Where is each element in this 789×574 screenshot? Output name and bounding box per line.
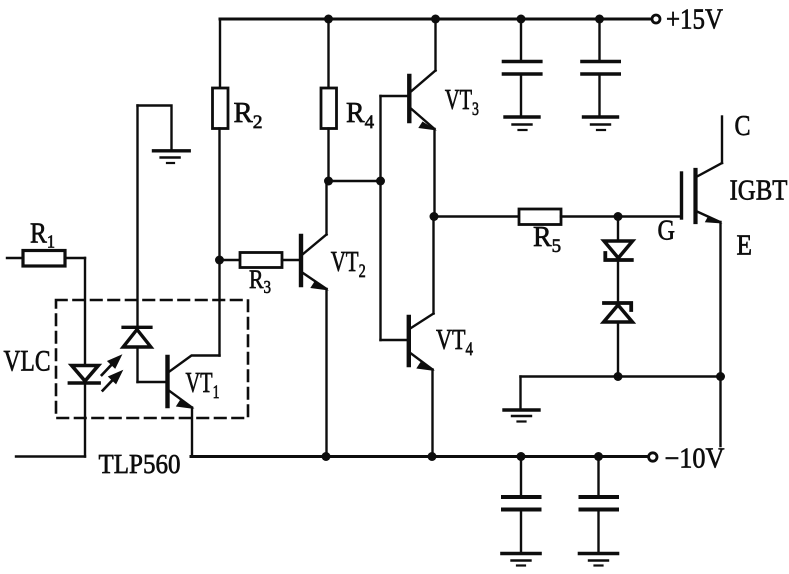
wire VT4 emitter to -10V rail	[431, 370, 433, 457]
label C	[735, 111, 751, 142]
node dot top rail at C1	[517, 15, 526, 24]
svg-text:VT1: VT1	[186, 368, 220, 403]
ground mid right	[504, 410, 539, 422]
node dot top rail at R4	[324, 15, 333, 24]
ground top middle	[154, 151, 190, 163]
node dot R4 bottom	[324, 177, 333, 186]
label VT2	[331, 247, 366, 282]
label VT4	[436, 325, 473, 360]
light arrow 1	[102, 354, 123, 375]
wire -10V bottom rail	[191, 455, 647, 458]
svg-text:TLP560: TLP560	[99, 449, 181, 479]
node dot base column	[376, 177, 385, 186]
node dot top rail at VT3 collector	[431, 15, 440, 24]
wire LED cathode to input return	[16, 455, 85, 457]
terminal -10V circle	[649, 453, 657, 461]
capacitor C4	[581, 457, 618, 552]
label -10V	[665, 444, 725, 475]
wire VT1 collector to node A	[218, 260, 220, 356]
phototransistor VT1	[138, 356, 220, 457]
label IGBT	[730, 176, 788, 207]
label E	[737, 231, 753, 262]
label R3	[249, 265, 271, 297]
svg-text:−10V: −10V	[665, 444, 725, 475]
svg-text:VT3: VT3	[445, 85, 479, 120]
capacitor C1	[504, 19, 541, 116]
svg-text:R5: R5	[533, 222, 561, 257]
svg-text:R3: R3	[249, 265, 271, 297]
label G	[658, 216, 676, 247]
wire IGBT collector C	[721, 117, 723, 164]
resistor R1	[7, 251, 85, 267]
label VLC	[4, 345, 51, 378]
ground under C1	[505, 117, 539, 130]
ground under C3	[502, 554, 540, 566]
ground under C4	[580, 554, 618, 566]
wire VT3 emitter to node B	[433, 129, 435, 217]
svg-text:G: G	[658, 216, 676, 247]
node dot rail C4	[594, 452, 603, 461]
resistor R4	[321, 19, 337, 181]
node dot top rail at C2	[595, 15, 604, 24]
wire VT2 emitter to -10V rail	[325, 289, 327, 457]
node B dot	[430, 212, 439, 221]
wire D1 top to ground	[138, 106, 172, 150]
resistor R2	[213, 19, 229, 260]
IGBT symbol	[682, 163, 723, 224]
wire VT3 collector to +15V	[434, 19, 436, 71]
wire +15V top rail	[220, 18, 651, 21]
terminal +15V circle	[652, 15, 660, 23]
label R5	[533, 222, 561, 257]
diode D1 in optocoupler	[123, 106, 151, 383]
transistor VT4	[409, 314, 435, 372]
node A dot R2/R3/VT1	[215, 256, 224, 265]
node dot rail VT4	[428, 452, 437, 461]
wire VT4 collector to node B	[432, 217, 434, 314]
svg-text:+15V: +15V	[666, 5, 723, 36]
label R4	[346, 98, 374, 133]
svg-text:VT2: VT2	[331, 247, 366, 282]
resistor R5	[434, 209, 680, 225]
wire base column VT3/VT4	[379, 96, 381, 340]
label TLP560	[99, 449, 181, 479]
zener diode VS1	[604, 217, 633, 302]
wire R1 to LED anode	[84, 258, 86, 366]
LED in optocoupler	[69, 366, 99, 457]
wire zener node to ground and emitter	[521, 377, 721, 409]
svg-text:E: E	[737, 231, 753, 262]
node dot rail C3	[517, 452, 526, 461]
wire to VT4 base	[381, 339, 407, 341]
label +15V	[666, 5, 723, 36]
ground under C2	[584, 117, 618, 130]
svg-text:R4: R4	[346, 98, 374, 133]
node dot rail VT2	[322, 452, 331, 461]
wire VT2 collector to node R4	[325, 181, 327, 235]
transistor VT3	[409, 71, 437, 131]
label R2	[234, 98, 263, 133]
svg-text:R1: R1	[30, 219, 55, 252]
label R1	[30, 219, 55, 252]
wire R4 node to base column	[329, 180, 381, 182]
transistor VT2	[301, 235, 329, 291]
node dot gate/zener	[614, 212, 623, 221]
capacitor C3	[503, 457, 540, 552]
label VT3	[445, 85, 479, 120]
zener diode VS2	[604, 303, 633, 377]
svg-text:C: C	[735, 111, 751, 142]
label VT1	[186, 368, 220, 403]
wire IGBT emitter E	[719, 222, 721, 446]
node dot emitter	[716, 372, 725, 381]
resistor R3	[220, 253, 300, 268]
svg-text:IGBT: IGBT	[730, 176, 788, 207]
light arrow 2	[103, 370, 124, 391]
node dot zener bottom	[614, 372, 623, 381]
optocoupler dashed box TLP560	[56, 300, 248, 418]
svg-text:R2: R2	[234, 98, 263, 133]
capacitor C2	[582, 19, 619, 116]
svg-text:VT4: VT4	[436, 325, 473, 360]
wire to VT3 base	[381, 95, 408, 97]
svg-text:VLC: VLC	[4, 345, 51, 378]
